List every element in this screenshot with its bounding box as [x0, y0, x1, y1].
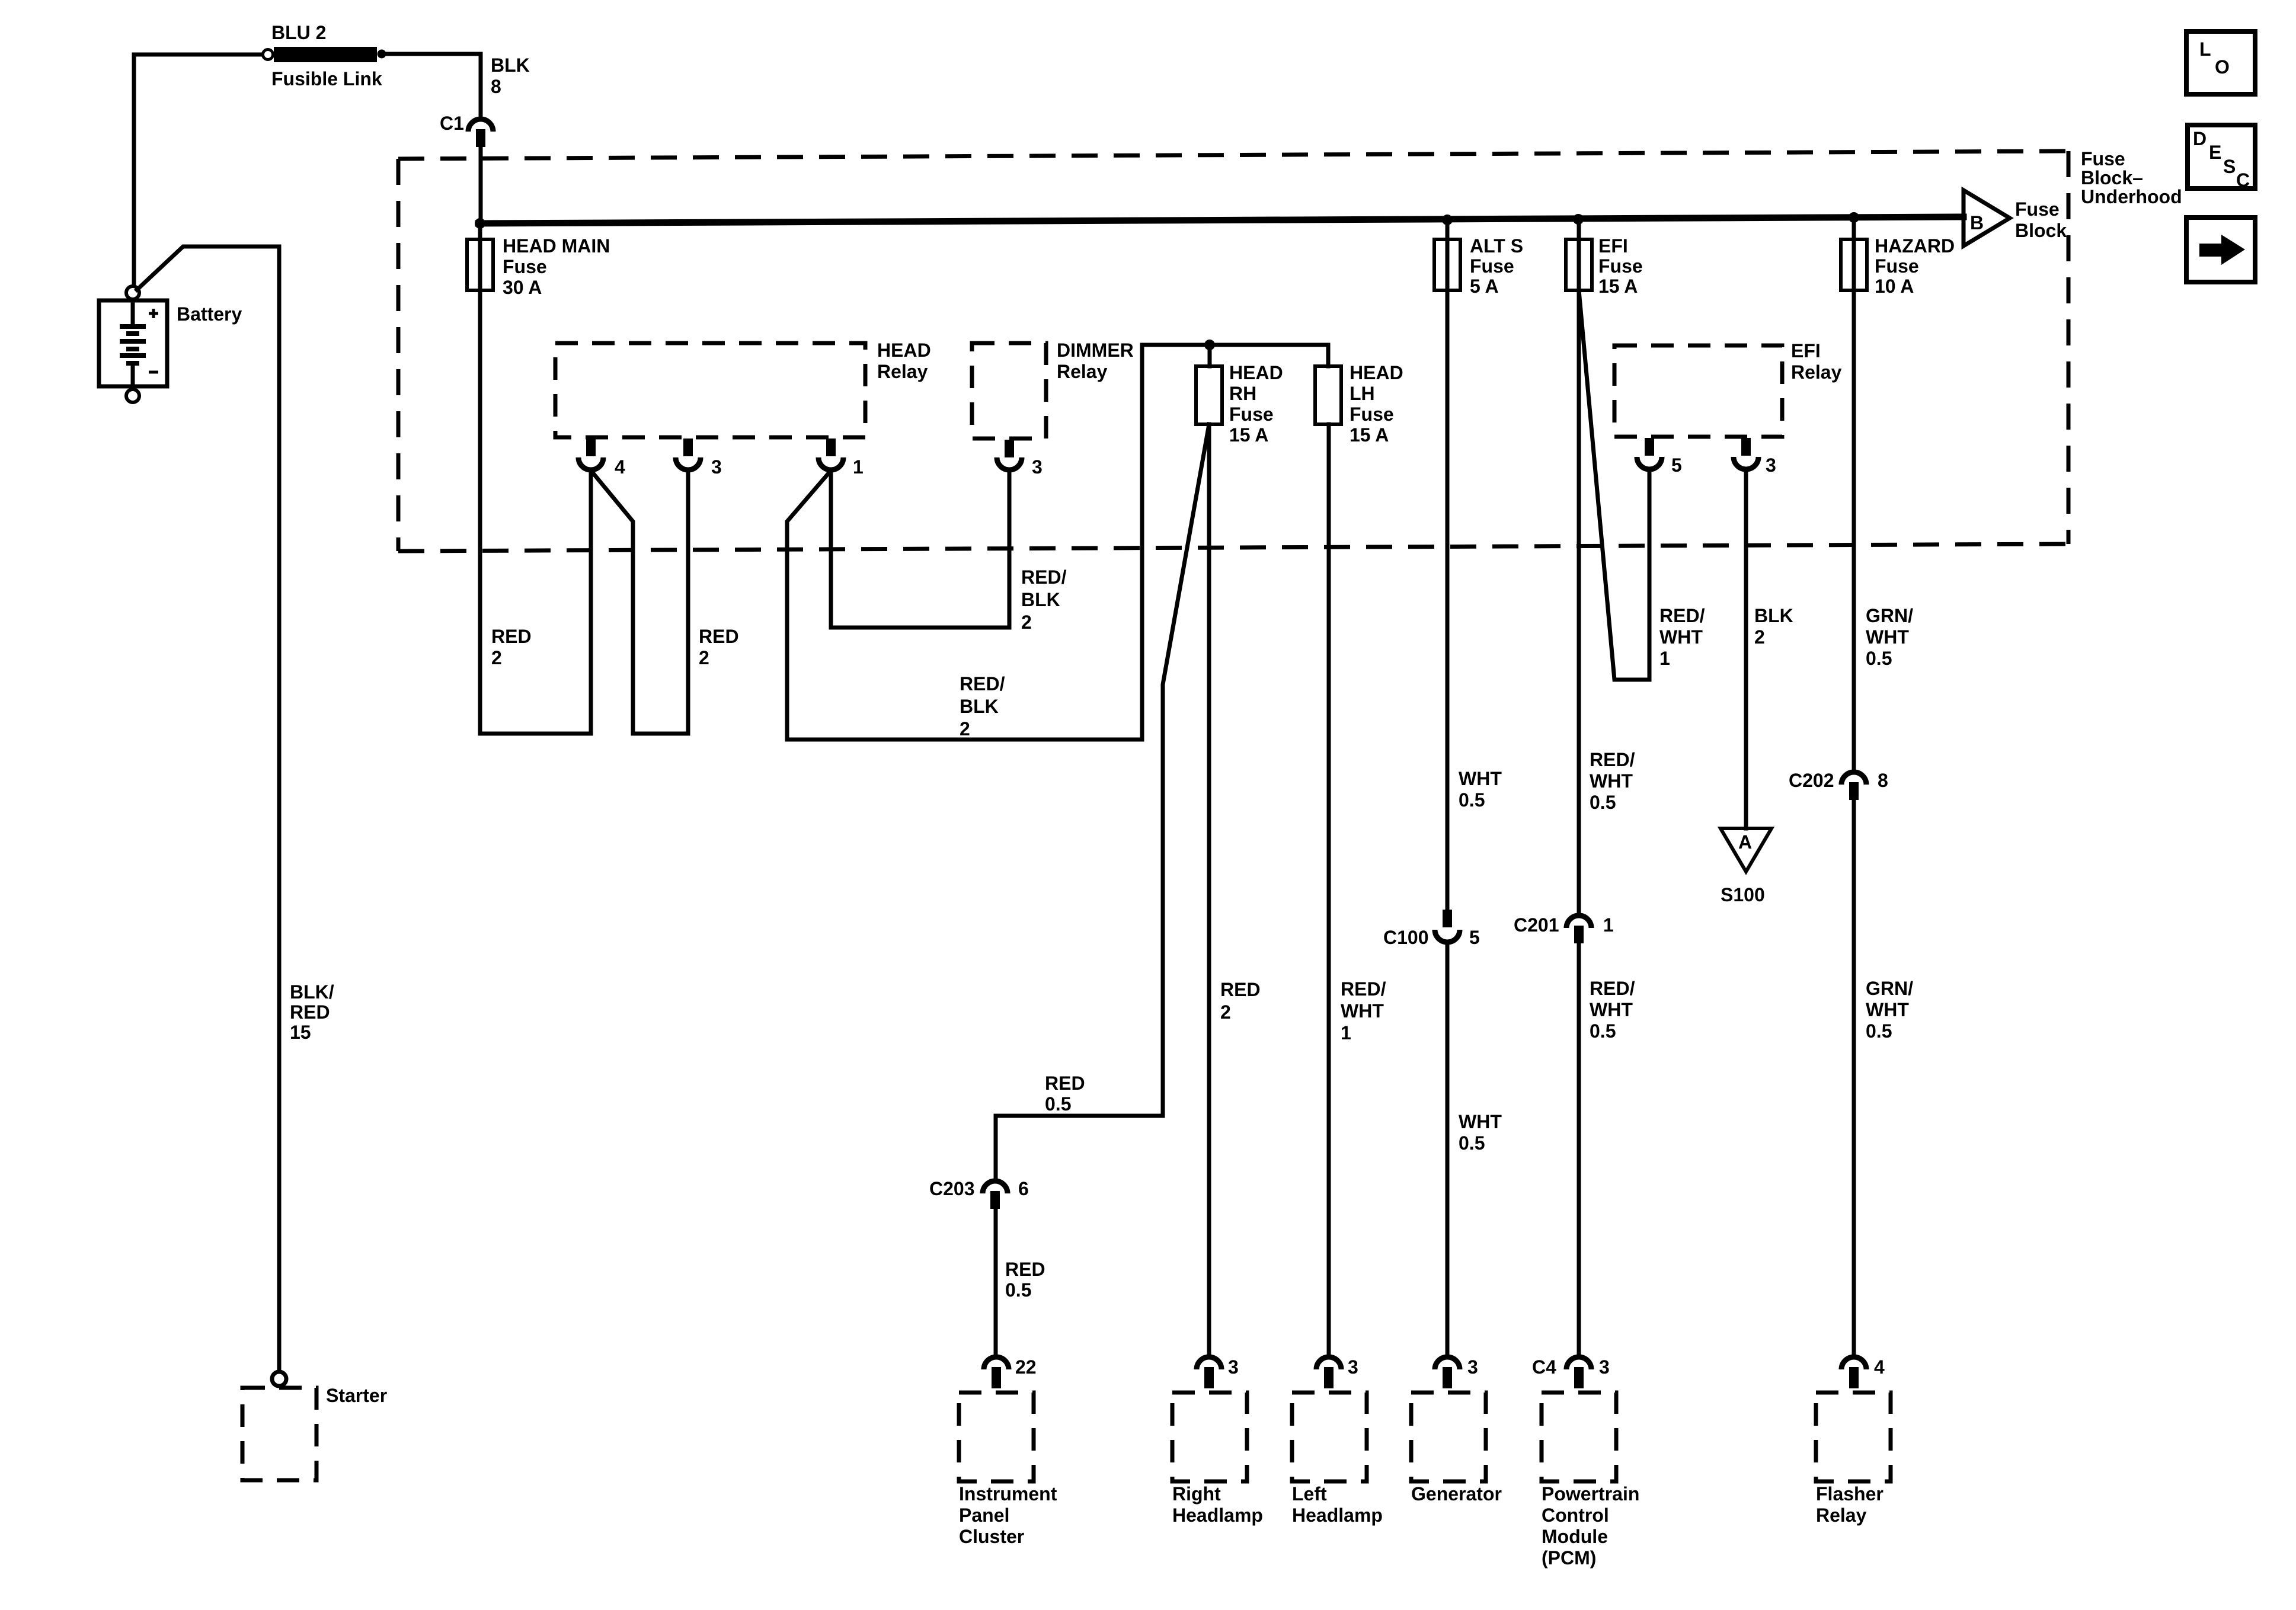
- junction: bus / ALT S fuse: [1442, 215, 1453, 225]
- svg-text:Panel: Panel: [959, 1505, 1009, 1526]
- svg-text:D: D: [2193, 128, 2207, 149]
- svg-text:Fuse: Fuse: [1875, 255, 1919, 277]
- label RED 2 (pin 3 wire): [699, 626, 739, 668]
- svg-text:RED/: RED/: [1341, 978, 1386, 1000]
- svg-text:WHT: WHT: [1341, 1000, 1384, 1022]
- svg-text:RED/: RED/: [1590, 978, 1635, 999]
- right headlamp: [1172, 1393, 1247, 1481]
- label Fuse Block-Underhood: [2081, 148, 2182, 207]
- svg-text:HEAD: HEAD: [1229, 362, 1283, 383]
- left headlamp pin 3: [1316, 1357, 1341, 1388]
- svg-text:BLK: BLK: [1021, 589, 1060, 610]
- starter terminal: [272, 1372, 286, 1386]
- fuse HEAD MAIN 30 A: [467, 239, 493, 290]
- battery: [99, 286, 167, 402]
- svg-text:ALT S: ALT S: [1470, 235, 1523, 257]
- svg-text:BLK: BLK: [960, 696, 999, 717]
- generator pin 3: [1435, 1357, 1460, 1388]
- svg-text:C202: C202: [1789, 770, 1834, 791]
- label RED 0.5 (upper): [1045, 1073, 1085, 1115]
- junction: bus / C1 feed: [475, 218, 485, 229]
- svg-text:Relay: Relay: [877, 361, 928, 382]
- junction: bus / EFI fuse: [1573, 214, 1584, 225]
- label BLK 8: [491, 55, 530, 97]
- wire: HEAD RH fuse to right headlamp (RED 2): [1207, 424, 1211, 1356]
- HEAD relay: [555, 343, 865, 437]
- svg-text:15: 15: [290, 1022, 311, 1043]
- svg-text:B: B: [1970, 212, 1984, 233]
- svg-text:WHT: WHT: [1590, 770, 1633, 792]
- HEAD relay pin 4: [578, 438, 603, 470]
- label DIMMER Relay: [1057, 340, 1134, 382]
- svg-text:0.5: 0.5: [1045, 1093, 1071, 1115]
- label Fuse Block: [2015, 199, 2067, 241]
- svg-text:5 A: 5 A: [1470, 276, 1499, 297]
- fusible link: [263, 47, 386, 62]
- svg-text:0.5: 0.5: [1005, 1279, 1031, 1301]
- fuse HEAD RH 15 A: [1196, 366, 1222, 424]
- svg-text:RED: RED: [699, 626, 739, 647]
- label RED/WHT 0.5 (lower): [1590, 978, 1635, 1042]
- svg-text:2: 2: [699, 647, 709, 668]
- wire: EFI fuse to EFI relay pin 5 (RED/WHT 1): [1579, 290, 1649, 680]
- svg-text:L: L: [2199, 39, 2211, 60]
- connector C100: [1435, 910, 1460, 942]
- label HAZARD Fuse 10 A: [1875, 235, 1955, 297]
- svg-text:Module: Module: [1542, 1526, 1608, 1547]
- svg-text:0.5: 0.5: [1459, 1132, 1485, 1154]
- svg-text:GRN/: GRN/: [1866, 978, 1913, 999]
- wire: bus through HEAD MAIN fuse to HEAD relay pin 4 (RED 2): [480, 223, 591, 734]
- svg-text:Fuse: Fuse: [1350, 404, 1394, 425]
- svg-text:1: 1: [1659, 648, 1670, 669]
- HEAD relay pin 1: [818, 438, 843, 470]
- svg-text:30 A: 30 A: [503, 277, 542, 298]
- fuse ALT S 5 A: [1434, 239, 1460, 290]
- powertrain control module: [1542, 1393, 1616, 1481]
- svg-text:Control: Control: [1542, 1505, 1609, 1526]
- svg-text:15 A: 15 A: [1598, 276, 1638, 297]
- svg-text:2: 2: [1220, 1001, 1231, 1023]
- fuse HEAD LH 15 A: [1315, 366, 1341, 424]
- EFI relay pin 3: [1734, 438, 1758, 469]
- wire: EFI relay pin 3 to ground splice S100 (BLK 2): [1744, 470, 1748, 828]
- label EFI Fuse 15 A: [1598, 235, 1643, 297]
- svg-text:0.5: 0.5: [1590, 792, 1616, 813]
- flasher relay pin 4: [1841, 1357, 1866, 1388]
- svg-text:2: 2: [491, 647, 502, 668]
- svg-text:RED/: RED/: [1659, 605, 1705, 626]
- connector C203: [983, 1181, 1008, 1209]
- svg-text:WHT: WHT: [1459, 1111, 1502, 1132]
- ground splice S100 (triangle A): [1721, 828, 1771, 872]
- generator: [1411, 1393, 1486, 1481]
- svg-text:Fusible Link: Fusible Link: [271, 68, 382, 89]
- svg-text:S: S: [2223, 156, 2236, 177]
- junction: headlamp fuse feed: [1204, 340, 1215, 350]
- junction: bus / HAZARD fuse: [1849, 212, 1859, 223]
- connector C202: [1841, 772, 1866, 800]
- fuse EFI 15 A: [1566, 239, 1592, 290]
- svg-text:E: E: [2209, 142, 2221, 163]
- svg-text:Underhood: Underhood: [2081, 186, 2182, 207]
- svg-text:RED: RED: [1220, 979, 1261, 1000]
- wire: bus through HAZARD fuse to C202 (GRN/WHT 0.5): [1852, 217, 1856, 772]
- legend box LO: [2186, 31, 2255, 94]
- right headlamp pin 3: [1197, 1357, 1221, 1388]
- svg-text:Battery: Battery: [177, 303, 242, 325]
- DIMMER relay: [972, 343, 1046, 438]
- svg-text:3: 3: [1467, 1356, 1478, 1378]
- wire: C202 to flasher relay (GRN/WHT 0.5): [1852, 800, 1856, 1356]
- svg-text:0.5: 0.5: [1866, 1020, 1892, 1042]
- svg-text:Fuse: Fuse: [2081, 148, 2125, 169]
- svg-text:RED: RED: [1005, 1259, 1045, 1280]
- svg-text:0.5: 0.5: [1866, 648, 1892, 669]
- svg-text:Block: Block: [2015, 220, 2067, 241]
- label EFI Relay: [1791, 340, 1842, 383]
- svg-text:3: 3: [1348, 1356, 1358, 1378]
- svg-text:RED/: RED/: [1590, 749, 1635, 770]
- connector C201: [1566, 916, 1591, 943]
- svg-text:WHT: WHT: [1659, 626, 1703, 648]
- svg-text:1: 1: [1603, 914, 1614, 936]
- svg-text:22: 22: [1015, 1356, 1037, 1378]
- svg-text:Relay: Relay: [1057, 361, 1108, 382]
- label Instrument Panel Cluster: [959, 1483, 1057, 1547]
- svg-text:5: 5: [1671, 454, 1682, 476]
- svg-text:3: 3: [1599, 1356, 1610, 1378]
- label GRN/WHT 0.5 (upper): [1866, 605, 1913, 669]
- svg-text:RED/: RED/: [960, 673, 1005, 694]
- wire: C201 to PCM (RED/WHT 0.5): [1577, 943, 1581, 1356]
- svg-text:C201: C201: [1514, 914, 1559, 936]
- svg-text:Starter: Starter: [326, 1385, 387, 1406]
- svg-text:C: C: [2236, 169, 2250, 191]
- label GRN/WHT 0.5 (lower): [1866, 978, 1913, 1042]
- svg-text:15 A: 15 A: [1229, 424, 1268, 446]
- label RED 2 (right headlamp wire): [1220, 979, 1261, 1023]
- node B: bus to fuse block (triangle): [1964, 190, 2010, 246]
- svg-text:DIMMER: DIMMER: [1057, 340, 1134, 361]
- svg-text:Fuse: Fuse: [1470, 255, 1514, 277]
- label RED/BLK 2 (feed wire): [960, 673, 1005, 740]
- wire: bus through EFI fuse to C201 (RED/WHT 0.5): [1577, 219, 1581, 914]
- label Powertrain Control Module (PCM): [1542, 1483, 1639, 1569]
- wire: battery to starter (BLK/RED 15): [137, 247, 279, 1371]
- svg-text:S100: S100: [1721, 884, 1765, 905]
- EFI relay pin 5: [1637, 438, 1662, 469]
- wire: bus through ALT S fuse to C100 (WHT 0.5): [1446, 220, 1450, 911]
- svg-text:Right: Right: [1172, 1483, 1221, 1505]
- svg-text:BLK: BLK: [491, 55, 530, 76]
- svg-text:5: 5: [1469, 927, 1480, 948]
- svg-text:3: 3: [1228, 1356, 1239, 1378]
- svg-text:WHT: WHT: [1866, 999, 1909, 1020]
- svg-text:HEAD: HEAD: [1350, 362, 1403, 383]
- label HEAD Relay: [877, 340, 931, 382]
- fuse block underhood (dashed box): [398, 151, 2068, 551]
- svg-text:Fuse: Fuse: [2015, 199, 2060, 220]
- svg-text:2: 2: [960, 718, 970, 740]
- wire: HEAD relay pin 1 to headlamp fuse feed (RED/BLK 2): [787, 345, 1328, 740]
- EFI relay: [1614, 345, 1782, 437]
- wire: fusible link to connector C1 (BLK 8): [386, 54, 481, 119]
- svg-text:HAZARD: HAZARD: [1875, 235, 1955, 257]
- svg-text:WHT: WHT: [1866, 626, 1909, 648]
- svg-text:GRN/: GRN/: [1866, 605, 1913, 626]
- label HEAD LH Fuse 15 A: [1350, 362, 1403, 446]
- legend box arrow: [2186, 217, 2255, 282]
- svg-text:RED: RED: [491, 626, 532, 647]
- svg-text:1: 1: [853, 456, 864, 478]
- svg-text:RH: RH: [1229, 383, 1256, 404]
- wire: C100 to generator (WHT 0.5): [1446, 943, 1450, 1356]
- PCM connector C4 pin 3: [1566, 1357, 1591, 1388]
- svg-text:C4: C4: [1532, 1356, 1556, 1378]
- svg-text:3: 3: [1766, 454, 1776, 476]
- svg-text:Relay: Relay: [1791, 361, 1842, 383]
- svg-text:0.5: 0.5: [1459, 789, 1485, 811]
- label RED/WHT 1 (efi relay feed): [1659, 605, 1705, 669]
- svg-text:BLK/: BLK/: [290, 981, 334, 1003]
- svg-text:EFI: EFI: [1791, 340, 1821, 361]
- label HEAD RH Fuse 15 A: [1229, 362, 1283, 446]
- svg-text:(PCM): (PCM): [1542, 1547, 1596, 1569]
- svg-text:4: 4: [1874, 1356, 1885, 1378]
- wire: HEAD LH fuse to left headlamp (RED/WHT 1): [1327, 424, 1331, 1356]
- label HEAD MAIN Fuse 30 A: [503, 235, 610, 298]
- svg-text:8: 8: [1878, 770, 1888, 791]
- wire: feed junction to HEAD RH fuse: [1208, 345, 1212, 366]
- HEAD relay pin 3: [676, 438, 701, 470]
- svg-text:O: O: [2215, 56, 2230, 78]
- wire: HEAD relay pin 4 to pin 3 (RED 2): [591, 470, 688, 734]
- svg-text:2: 2: [1021, 612, 1032, 633]
- svg-text:Fuse: Fuse: [1598, 255, 1643, 277]
- instrument panel cluster: [959, 1393, 1034, 1481]
- svg-text:C100: C100: [1383, 927, 1429, 948]
- svg-text:3: 3: [1032, 456, 1043, 478]
- flasher relay: [1816, 1393, 1891, 1481]
- wire: HEAD relay pin 1 to DIMMER relay pin 3 (RED/BLK 2): [831, 470, 1009, 628]
- svg-text:HEAD: HEAD: [877, 340, 931, 361]
- svg-text:A: A: [1738, 831, 1752, 853]
- svg-text:2: 2: [1754, 626, 1765, 648]
- svg-text:Headlamp: Headlamp: [1292, 1505, 1383, 1526]
- svg-text:RED/: RED/: [1021, 566, 1067, 588]
- svg-text:Flasher: Flasher: [1816, 1483, 1884, 1505]
- svg-text:C1: C1: [440, 113, 464, 134]
- svg-text:BLK: BLK: [1754, 605, 1793, 626]
- label BLK/RED 15: [290, 981, 334, 1043]
- svg-text:8: 8: [491, 76, 501, 97]
- svg-text:Instrument: Instrument: [959, 1483, 1057, 1505]
- wire: HEAD RH fuse to C203 (RED 0.5): [996, 424, 1209, 1179]
- svg-text:1: 1: [1341, 1022, 1351, 1044]
- label WHT 0.5 (lower): [1459, 1111, 1502, 1154]
- label Left Headlamp: [1292, 1483, 1383, 1526]
- label BLK 2: [1754, 605, 1793, 648]
- svg-text:C203: C203: [929, 1178, 975, 1199]
- svg-text:6: 6: [1018, 1178, 1029, 1199]
- svg-text:Relay: Relay: [1816, 1505, 1867, 1526]
- DIMMER relay pin 3: [997, 440, 1022, 470]
- svg-text:Cluster: Cluster: [959, 1526, 1024, 1547]
- wire: main feed bus: [478, 217, 1964, 223]
- svg-text:15 A: 15 A: [1350, 424, 1389, 446]
- instrument panel cluster pin 22: [984, 1357, 1009, 1388]
- svg-text:10 A: 10 A: [1875, 276, 1914, 297]
- svg-text:HEAD MAIN: HEAD MAIN: [503, 235, 610, 257]
- label Flasher Relay: [1816, 1483, 1884, 1526]
- svg-text:Fuse: Fuse: [1229, 404, 1274, 425]
- svg-text:LH: LH: [1350, 383, 1375, 404]
- svg-text:Powertrain: Powertrain: [1542, 1483, 1639, 1505]
- label ALT S Fuse 5 A: [1470, 235, 1523, 297]
- starter: [242, 1388, 316, 1480]
- svg-text:4: 4: [615, 456, 625, 478]
- svg-text:RED: RED: [1045, 1073, 1085, 1094]
- label RED/BLK 2 (dimmer wire): [1021, 566, 1067, 633]
- legend box DESC: [2188, 125, 2255, 191]
- svg-text:Fuse: Fuse: [503, 256, 547, 277]
- svg-text:WHT: WHT: [1459, 768, 1502, 789]
- svg-text:RED: RED: [290, 1001, 330, 1023]
- label Right Headlamp: [1172, 1483, 1263, 1526]
- svg-text:Block–: Block–: [2081, 167, 2143, 188]
- label RED 2 (head main wire): [491, 626, 532, 668]
- left headlamp: [1292, 1393, 1367, 1481]
- svg-text:WHT: WHT: [1590, 999, 1633, 1020]
- svg-text:Left: Left: [1292, 1483, 1327, 1505]
- wire: battery positive to fusible link: [134, 55, 265, 288]
- connector C1: [468, 119, 493, 147]
- label RED 0.5 (lower): [1005, 1259, 1045, 1301]
- wire: C203 to instrument panel cluster (RED 0.5): [994, 1209, 998, 1356]
- svg-text:Generator: Generator: [1411, 1483, 1502, 1505]
- svg-text:BLU 2: BLU 2: [271, 22, 326, 43]
- svg-text:EFI: EFI: [1598, 235, 1628, 257]
- svg-text:0.5: 0.5: [1590, 1020, 1616, 1042]
- label RED/WHT 1 (left headlamp wire): [1341, 978, 1386, 1044]
- fuse HAZARD 10 A: [1841, 239, 1867, 290]
- label WHT 0.5 (upper): [1459, 768, 1502, 811]
- svg-text:3: 3: [711, 456, 722, 478]
- svg-text:Headlamp: Headlamp: [1172, 1505, 1263, 1526]
- label RED/WHT 0.5 (upper): [1590, 749, 1635, 813]
- wire: C1 to fuse block bus: [479, 147, 483, 223]
